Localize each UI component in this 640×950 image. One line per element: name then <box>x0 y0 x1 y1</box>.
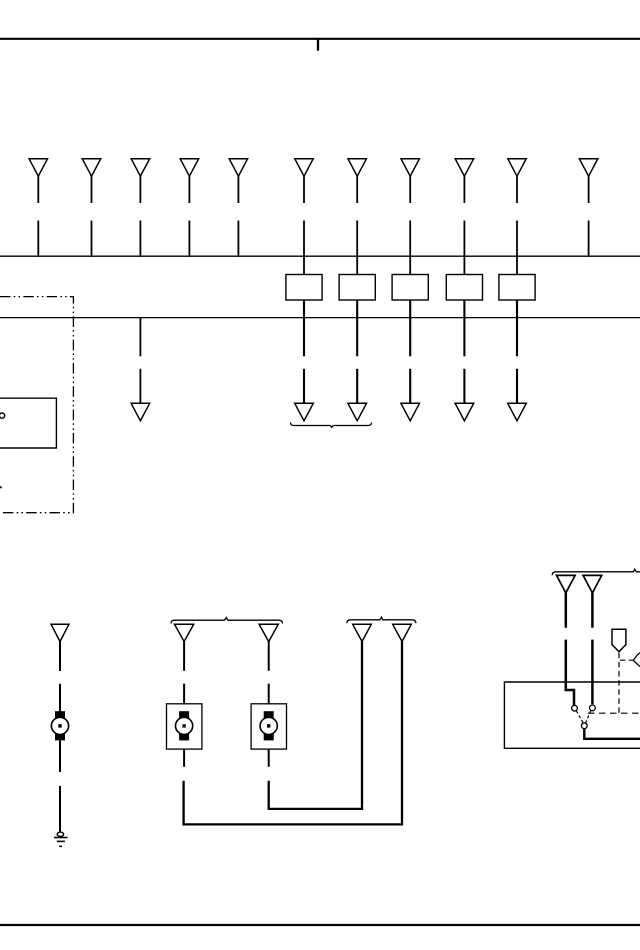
clipped connector symbol <box>633 653 640 667</box>
frame tick <box>317 39 319 51</box>
wire from fuse F5 <box>516 300 518 356</box>
connector terminal T13 <box>175 624 194 641</box>
fuse F1 <box>286 275 322 301</box>
connector terminal T6 <box>295 159 313 275</box>
motor M2 <box>176 711 193 740</box>
wire <box>59 641 61 671</box>
fuse F5 <box>499 275 535 301</box>
wire from fuse F2 <box>356 300 358 356</box>
wire <box>59 740 61 772</box>
bus wire lower <box>0 317 640 319</box>
dashed link vertical <box>618 653 620 713</box>
group bracket (underbrace) <box>291 423 372 428</box>
harness bracket (overbrace) <box>171 618 283 624</box>
wire below M2 <box>183 749 185 767</box>
connector terminal T16 <box>393 624 412 641</box>
wire from fuse F3 <box>409 300 411 356</box>
wire loop M3 to T15 <box>269 641 362 809</box>
connector terminal T2 <box>82 159 100 257</box>
continuation arrow A4 <box>455 403 474 421</box>
wire from fuse F4 <box>463 300 465 356</box>
wire <box>183 641 185 671</box>
connector terminal T8 <box>401 159 419 275</box>
motor M1 <box>51 711 68 740</box>
continuation arrow A3 <box>401 403 420 421</box>
shield boundary (dash-dot box) <box>0 297 73 513</box>
connector terminal T18 <box>583 575 602 593</box>
fuse F3 <box>392 275 428 301</box>
keyless tag component <box>612 629 626 651</box>
continuation arrow A2 <box>348 403 367 421</box>
continuation arrow A1 <box>295 403 314 421</box>
actuator box right <box>251 704 286 749</box>
connector terminal T15 <box>353 624 372 641</box>
dashed mechanical link horizontal <box>588 712 640 714</box>
switch contact b <box>590 705 596 711</box>
switch blade positions (dashed) <box>576 711 583 723</box>
wire from fuse F1 <box>303 300 305 356</box>
clipped label glyph <box>0 413 5 418</box>
continuation arrow A0 <box>131 403 150 421</box>
motor M3 <box>260 711 277 740</box>
actuator box left <box>167 704 202 749</box>
wire continuation stub <box>139 318 141 356</box>
connector terminal T7 <box>348 159 366 275</box>
switch output wire <box>584 729 640 739</box>
bottom border line <box>0 924 640 926</box>
connector terminal T17 <box>557 575 576 593</box>
harness bracket (overbrace, clipped) <box>552 569 640 575</box>
wire T18 to switch <box>591 593 594 628</box>
connector terminal T4 <box>180 159 198 257</box>
fuse F2 <box>339 275 375 301</box>
wire below M3 <box>268 749 270 767</box>
connector terminal T12 <box>51 624 69 641</box>
clipped mark <box>0 486 2 488</box>
switch contact a <box>572 705 578 711</box>
control unit box (clipped) <box>504 682 640 748</box>
connector terminal T9 <box>455 159 473 275</box>
bus wire upper <box>0 255 640 257</box>
dashed link branch <box>620 659 633 661</box>
switch common contact <box>581 723 587 729</box>
harness bracket (overbrace) <box>347 617 416 623</box>
connector terminal T5 <box>229 159 247 257</box>
top border line <box>0 38 640 40</box>
connector terminal T3 <box>131 159 149 257</box>
connector terminal T14 <box>259 624 278 641</box>
connector terminal T10 <box>508 159 526 275</box>
wire T17 to switch <box>565 593 568 628</box>
continuation arrow A5 <box>508 403 527 421</box>
connector terminal T11 <box>579 159 597 257</box>
control module box (clipped) <box>0 398 56 448</box>
wire loop M2 to T16 <box>184 641 402 824</box>
ground G1 <box>54 832 68 846</box>
fuse F4 <box>446 275 482 301</box>
wire <box>268 641 270 671</box>
connector terminal T1 <box>29 159 47 257</box>
